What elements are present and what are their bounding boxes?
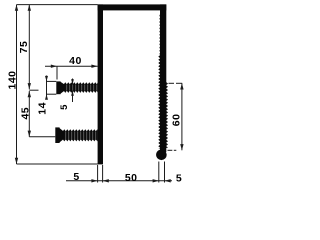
lower screw-port head xyxy=(55,127,59,143)
dimension line 5 upper shank xyxy=(72,79,74,85)
svg-text:75: 75 xyxy=(18,41,30,54)
bottom bulb of right leg xyxy=(156,150,167,161)
svg-text:45: 45 xyxy=(20,107,32,120)
svg-text:5: 5 xyxy=(176,172,182,184)
bottom dimension line xyxy=(66,180,172,182)
left wall of profile xyxy=(98,4,103,164)
dimension line 75 xyxy=(28,5,30,90)
svg-text:40: 40 xyxy=(69,55,82,67)
upper screw-port taper xyxy=(60,82,64,94)
top flange of profile xyxy=(98,4,167,10)
upper screw-port serrated shank xyxy=(64,82,98,93)
svg-text:140: 140 xyxy=(6,70,18,89)
lower screw-port taper xyxy=(59,128,63,143)
svg-text:14: 14 xyxy=(36,102,48,115)
svg-text:5: 5 xyxy=(73,171,79,183)
top extension line xyxy=(17,4,98,6)
right serrated leg body xyxy=(160,4,166,152)
bottom extension line xyxy=(17,163,99,165)
right leg left-edge teeth lower xyxy=(158,55,160,149)
upper shank thread lines xyxy=(66,85,68,91)
bottom extension verticals xyxy=(97,165,99,183)
dimension line 60 xyxy=(181,83,183,150)
60 bottom extension dashes xyxy=(168,149,173,151)
dimension line 140 xyxy=(16,5,18,164)
extension line 40 left xyxy=(56,66,58,79)
lower shank thread lines xyxy=(65,132,67,140)
extrusion profile technical drawing xyxy=(0,0,198,188)
upper screw-port head xyxy=(56,81,60,94)
extension ticks 14 xyxy=(47,80,57,82)
60 top extension dashes xyxy=(169,82,175,84)
dimension line 40 xyxy=(45,65,98,67)
svg-text:60: 60 xyxy=(170,114,182,127)
svg-text:50: 50 xyxy=(125,172,138,184)
right leg right-edge teeth xyxy=(166,82,168,148)
lower screw-port serrated shank xyxy=(63,129,98,141)
svg-text:5: 5 xyxy=(59,104,70,110)
tick at 75/45 junction xyxy=(29,89,38,91)
right leg left-edge teeth upper xyxy=(158,14,161,55)
leader 45 to lower head xyxy=(29,136,55,138)
dimension line 14 xyxy=(46,76,48,100)
dimension line 45 xyxy=(28,91,30,137)
